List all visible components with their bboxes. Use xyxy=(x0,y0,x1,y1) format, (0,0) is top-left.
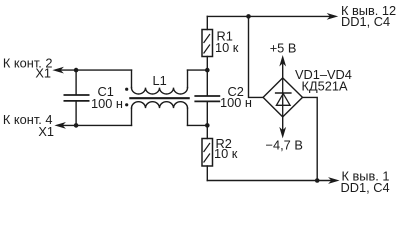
svg-text:DD1, C4: DD1, C4 xyxy=(341,180,390,195)
node K vyv. 12 DD1, C4 (right arrow) xyxy=(328,3,396,29)
wire top output rail xyxy=(207,15,330,17)
wire bottom mid rail (right section) xyxy=(188,124,208,126)
svg-text:DD1, C4: DD1, C4 xyxy=(341,14,390,29)
svg-text:X1: X1 xyxy=(38,124,54,139)
svg-text:100 н: 100 н xyxy=(220,95,252,110)
svg-text:10 к: 10 к xyxy=(214,146,238,161)
node K vyv. 1 DD1, C4 (right arrow) xyxy=(329,168,389,195)
svg-text:X1: X1 xyxy=(35,65,51,80)
svg-text:+5 В: +5 В xyxy=(270,40,297,55)
junction C2 / R2 xyxy=(205,123,210,128)
junction node top rail to bridge feed xyxy=(246,14,251,19)
resistor R2 10 k xyxy=(202,125,238,180)
svg-text:10 к: 10 к xyxy=(215,40,239,55)
junction bottom rail to bridge return xyxy=(315,178,320,183)
node -4,7 V (down arrow) xyxy=(266,117,303,152)
svg-text:100 н: 100 н xyxy=(91,96,123,111)
node K kont. 2 X1 (left arrow) xyxy=(3,55,63,80)
wire top mid rail (right section) xyxy=(188,69,208,71)
svg-text:L1: L1 xyxy=(153,73,167,88)
wire bottom mid rail (left section) xyxy=(60,124,132,126)
capacitor C2 100 n xyxy=(195,70,252,125)
inductor L1 common-mode choke xyxy=(125,70,189,125)
wire bridge return from bridge right corner to bottom rail xyxy=(303,97,318,180)
node K kont. 4 X1 (left arrow) xyxy=(3,112,65,139)
wire bridge feed from top rail to bridge left corner xyxy=(249,16,264,97)
wire bottom output rail xyxy=(207,180,331,182)
diode bridge VD1-VD4 KD521A xyxy=(263,67,352,117)
wire top mid rail (left section) xyxy=(58,69,132,71)
capacitor C1 100 n xyxy=(64,70,123,125)
node +5 V (up arrow) xyxy=(270,40,297,78)
svg-text:КД521А: КД521А xyxy=(302,78,348,93)
junction C1 bottom xyxy=(74,123,79,128)
resistor R1 10 k xyxy=(202,16,239,70)
junction C1 top xyxy=(74,68,79,73)
junction R1 / C2 xyxy=(205,68,210,73)
svg-text:−4,7 В: −4,7 В xyxy=(266,137,303,152)
